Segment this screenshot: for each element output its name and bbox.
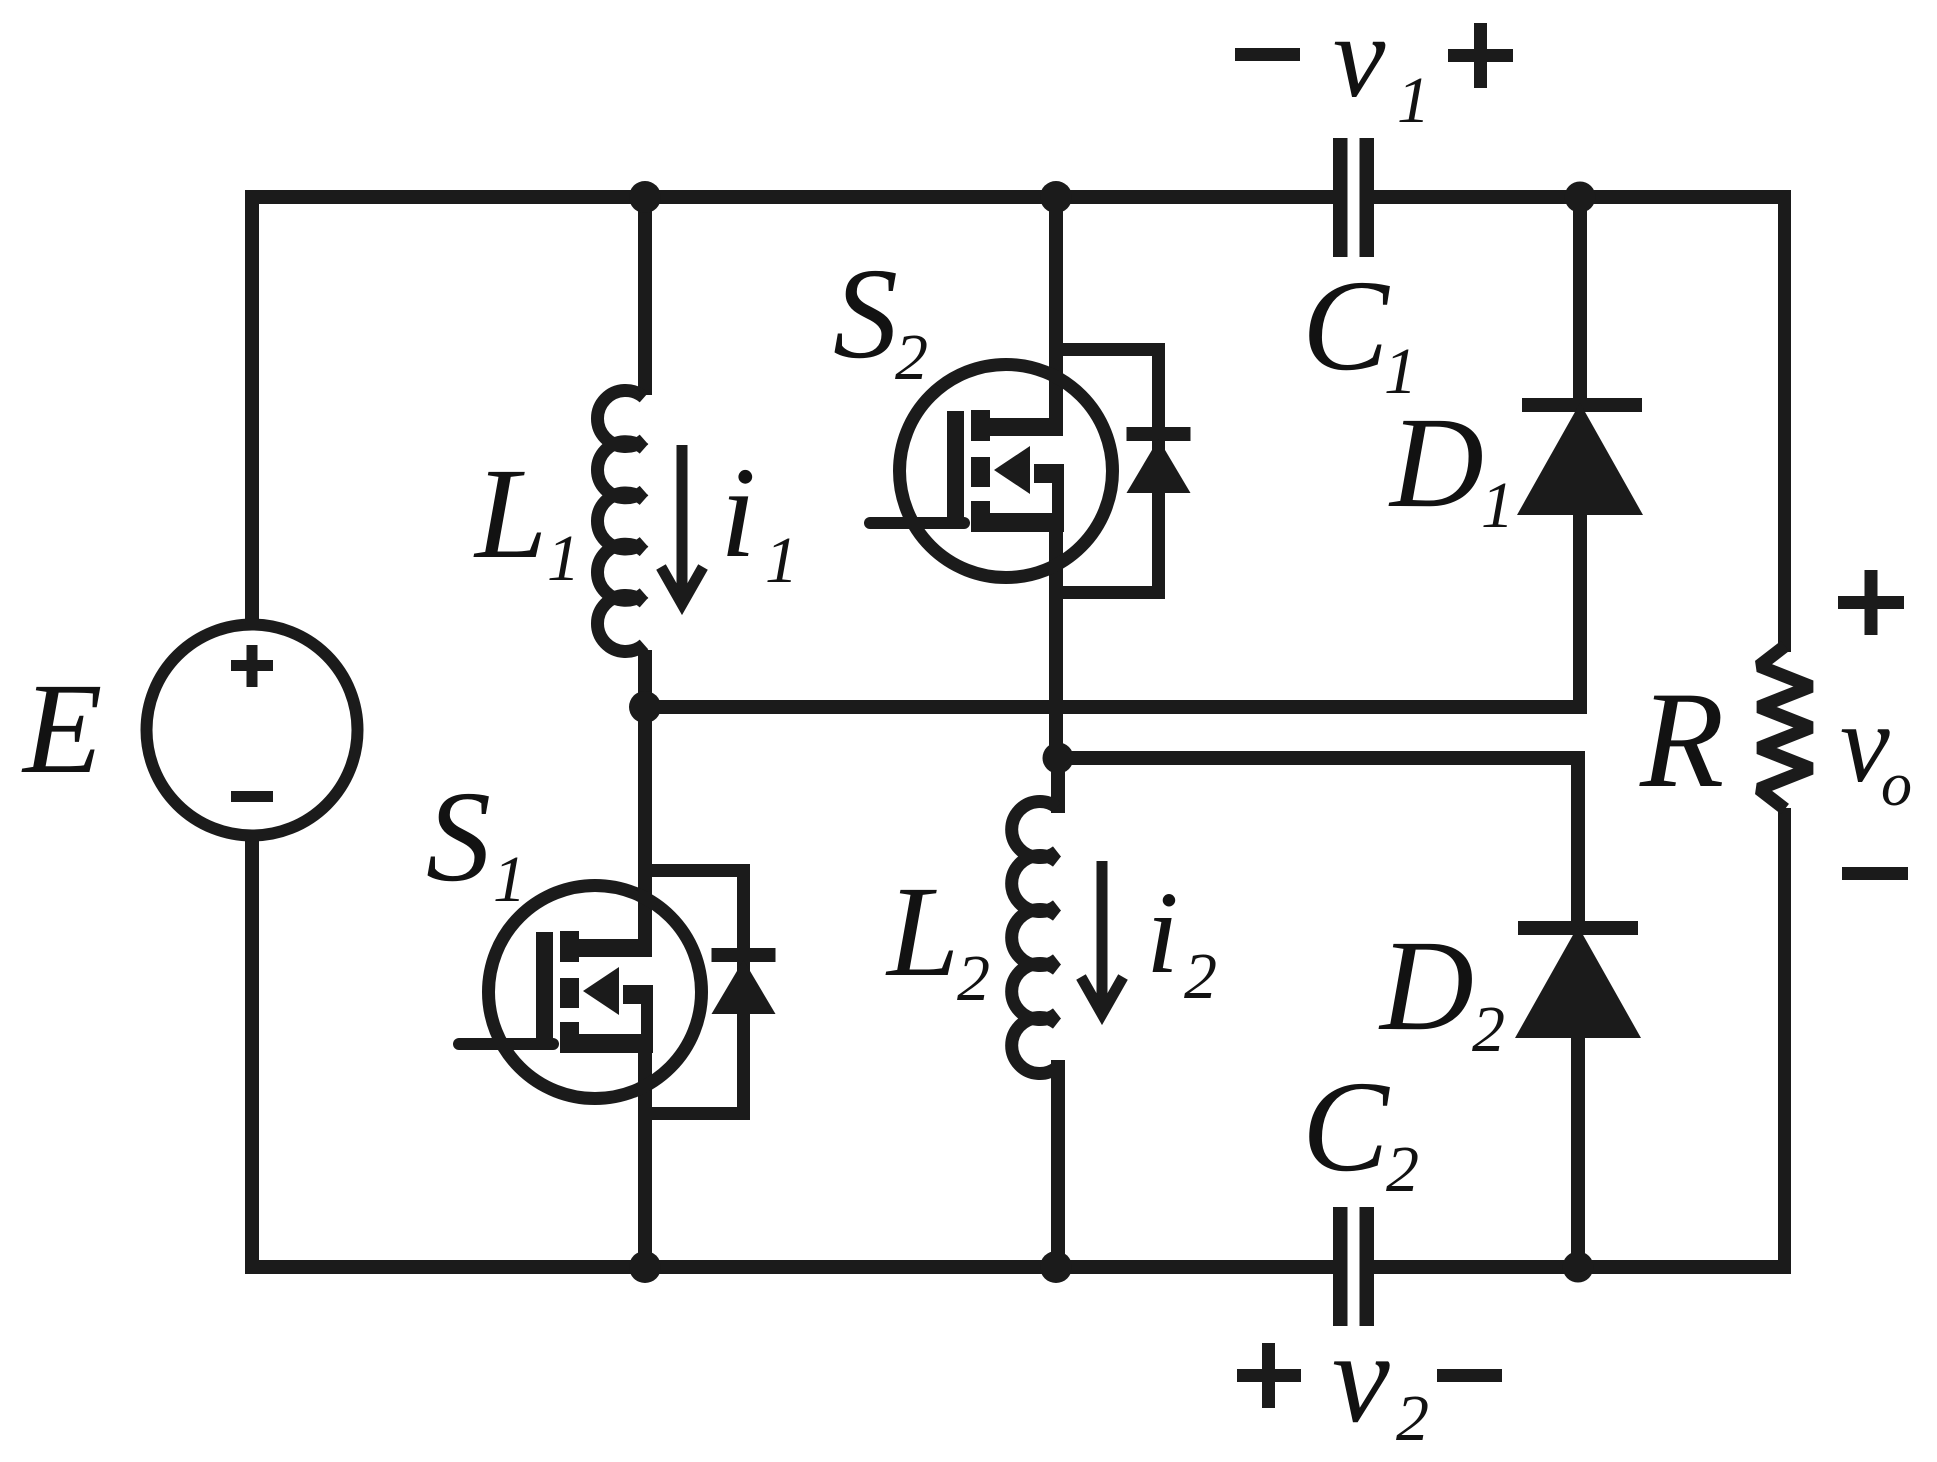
label plus of v2 [1237,1369,1301,1382]
svg-text:D: D [1378,914,1474,1058]
svg-text:v: v [1333,0,1386,122]
transistor S2 MOSFET circle [900,365,1113,578]
diode D2 triangle [1515,926,1641,1038]
svg-text:1: 1 [1481,469,1514,542]
svg-text:L: L [885,860,959,1004]
wire S1 drain lead [638,700,652,948]
svg-text:2: 2 [957,942,990,1015]
transistor S1 body-diode loop right wire [737,864,750,1120]
transistor S1 channel segment bottom [560,1022,579,1053]
transistor S1 body-diode cathode bar [712,948,776,962]
svg-text:2: 2 [1472,993,1505,1066]
svg-text:1: 1 [547,522,580,595]
svg-text:2: 2 [1396,1382,1429,1455]
transistor S1 gate bar [536,932,553,1050]
transistor S1 source connector [560,1034,653,1053]
diode D1 cathode bar [1522,398,1642,412]
capacitor C2 right plate [1360,1207,1375,1326]
current arrow i2 [1081,861,1123,1014]
wire right rail above R [1778,190,1791,652]
transistor S1 source join bar [641,985,653,1053]
wire bottom rail right of C2 [1374,1260,1791,1274]
svg-text:E: E [21,657,102,801]
transistor S1 body arrow [583,967,619,1015]
svg-text:D: D [1388,391,1484,535]
capacitor C1 right plate [1360,138,1375,257]
wire top rail left of C1 [245,190,1333,204]
diode D1 cathode lead [1573,190,1587,402]
node junction bottom-L2 [1040,1251,1072,1283]
transistor S2 body-diode loop top wire [1056,343,1165,356]
wire right rail below R [1778,808,1791,1274]
wire L2 bottom lead [1051,1060,1065,1274]
svg-text:o: o [1881,751,1912,819]
inductor L1 [597,391,644,652]
transistor S2 drain connector [971,418,1063,436]
transistor S2 body-diode triangle [1127,439,1191,493]
label plus of vo [1838,596,1904,609]
svg-text:1: 1 [493,843,526,916]
transistor S1 channel segment top [560,931,579,962]
current arrow i1 [661,445,703,604]
diode D2 cathode bar [1518,921,1638,935]
diode D1 anode lead [1573,510,1587,714]
capacitor C1 left plate [1333,138,1348,257]
svg-text:i: i [720,441,756,585]
transistor S1 MOSFET circle [489,886,702,1099]
wire S2 source lead [1049,513,1063,765]
node junction S2-source [1043,743,1074,774]
svg-text:C: C [1302,1055,1390,1199]
wire L2 top lead [1051,758,1065,813]
svg-text:v: v [1332,1306,1390,1450]
capacitor C2 left plate [1333,1207,1348,1326]
svg-text:R: R [1639,663,1724,816]
node junction L1-bottom [629,691,661,723]
resistor R zigzag [1759,646,1811,809]
svg-text:C: C [1302,254,1390,398]
node junction top-L1 [629,181,661,213]
wire bottom rail left of C2 [245,1260,1333,1274]
wire L1 bottom lead [638,650,652,714]
wire S1 source lead [638,1034,652,1274]
node junction bottom-S1 [629,1251,661,1283]
svg-text:1: 1 [765,524,798,597]
label minus of vo [1842,867,1908,880]
node junction top-S2 [1040,181,1072,213]
node junction bottom-D2 [1563,1252,1594,1283]
transistor S2 channel segment top [971,410,990,441]
svg-text:1: 1 [1397,64,1430,137]
svg-text:2: 2 [895,321,928,394]
inductor L2 [1012,801,1057,1073]
label minus of v1 [1235,48,1300,61]
transistor S1 body-diode loop top wire [645,864,750,877]
svg-text:i: i [1146,867,1179,998]
transistor S1 gate lead [459,1038,553,1050]
wire middle rail B (S2 source to D2 cathode) [1051,751,1585,765]
label minus of v2 [1437,1369,1502,1382]
transistor S2 gate lead [870,517,964,529]
transistor S2 source connector [971,513,1064,532]
voltage source E minus sign [231,791,273,802]
wire L1 top lead [638,190,652,395]
node junction top-D1 [1565,182,1596,213]
transistor S2 body-diode loop right wire [1152,343,1165,599]
transistor S2 body connector [1034,464,1064,483]
transistor S2 channel segment bottom [971,501,990,532]
transistor S1 channel segment middle [560,978,579,1008]
diode D2 cathode lead [1571,751,1585,926]
diode D1 triangle [1517,403,1643,515]
transistor S2 source join bar [1052,464,1064,532]
transistor S1 body-diode triangle [712,960,776,1014]
svg-text:S: S [833,242,898,386]
svg-text:2: 2 [1386,1133,1419,1206]
transistor S2 channel segment middle [971,457,990,487]
transistor S2 gate bar [947,411,964,529]
transistor S2 body-diode loop bottom wire [1056,586,1165,599]
transistor S1 drain connector [560,939,652,957]
voltage source E circle [147,625,358,836]
label plus of v1 [1448,49,1513,62]
wire left rail below E [245,839,259,1274]
wire S2 drain lead [1049,190,1063,427]
wire left rail above E [245,190,259,622]
svg-text:L: L [473,442,547,586]
transistor S1 body connector [623,985,653,1004]
svg-text:2: 2 [1184,940,1217,1013]
wire top rail right of C1 [1374,190,1791,204]
voltage source E plus sign [231,660,273,671]
transistor S1 body-diode loop bottom wire [645,1107,750,1120]
wire middle rail A (L1 bottom to D1 anode) [638,700,1587,714]
svg-text:S: S [426,765,491,909]
transistor S2 body arrow [994,446,1030,494]
diode D2 anode lead [1571,1034,1585,1274]
transistor S2 body-diode cathode bar [1127,427,1191,441]
